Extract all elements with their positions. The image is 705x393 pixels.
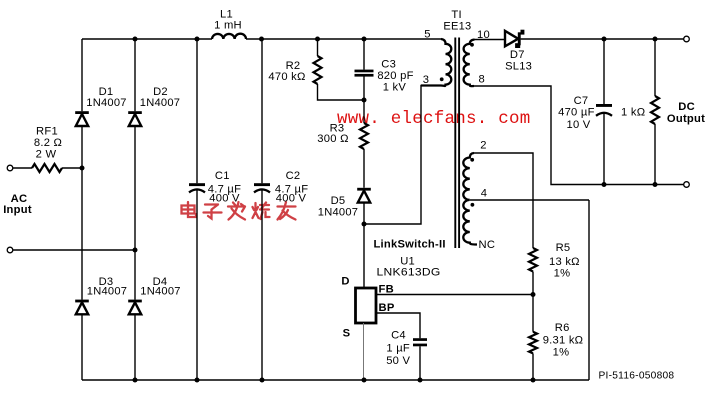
capacitor C3 column wire: [363, 39, 365, 123]
left column wire (D1/D3 branch): [81, 39, 83, 380]
svg-text:AC: AC: [11, 193, 28, 205]
svg-text:1N4007: 1N4007: [140, 286, 181, 298]
primary phasing dot: [440, 77, 444, 81]
diode D3: [75, 300, 89, 315]
svg-text:1N4007: 1N4007: [87, 286, 128, 298]
svg-text:1 µF: 1 µF: [386, 342, 410, 354]
svg-text:400 V: 400 V: [209, 193, 240, 205]
junction dots bottom rail: [133, 378, 138, 383]
transformer T1 primary winding (pins 5-3): [421, 39, 451, 86]
svg-text:1N4007: 1N4007: [318, 206, 359, 218]
junction dots on top rail: [133, 37, 138, 42]
resistor R2 branch wire: [318, 39, 365, 100]
svg-text:820 pF: 820 pF: [377, 70, 413, 82]
svg-text:1 kV: 1 kV: [383, 82, 407, 94]
wire pin 4 tap: [470, 199, 589, 201]
watermark CJK char 5: [278, 202, 296, 220]
watermark CJK char 1: [182, 202, 197, 217]
transformer T1 core: [455, 38, 459, 249]
capacitor C4: [413, 338, 427, 346]
svg-text:1%: 1%: [553, 346, 570, 358]
resistor R3: [360, 123, 368, 149]
svg-text:2 W: 2 W: [36, 149, 57, 161]
junction dots output bottom: [602, 182, 607, 187]
wire R3 to D5: [363, 149, 365, 288]
capacitor C1 column wire: [196, 39, 198, 380]
capacitor C3: [355, 70, 374, 77]
resistor R2: [314, 56, 322, 84]
resistor R8 1k column wire: [654, 39, 656, 185]
IC U1 LinkSwitch-II: [356, 288, 377, 323]
diode D1: [75, 111, 89, 126]
svg-text:U1: U1: [400, 255, 415, 267]
svg-text:D7: D7: [510, 49, 525, 61]
capacitor C7 column wire: [603, 39, 605, 185]
wire R5 to R6: [532, 272, 534, 332]
svg-text:R6: R6: [555, 322, 570, 334]
wire pin4 return: [588, 200, 590, 380]
capacitor C1: [189, 183, 205, 192]
wire FB to divider: [376, 294, 533, 296]
capacitor C2 column wire: [261, 39, 263, 380]
wire pin 2 to R5: [474, 153, 533, 248]
svg-text:SL13: SL13: [505, 61, 532, 73]
DC output terminal +: [684, 36, 690, 42]
watermark CJK char 4: [253, 203, 270, 220]
AC input terminal 1: [7, 165, 13, 171]
svg-text:C2: C2: [286, 170, 301, 182]
svg-text:S: S: [343, 327, 351, 339]
junction dots output top: [602, 37, 607, 42]
node AC2/D2-D4 junction: [133, 248, 138, 253]
svg-text:2: 2: [480, 140, 486, 152]
svg-text:3: 3: [423, 74, 429, 86]
capacitor C2: [254, 183, 270, 192]
watermark CJK char 3: [228, 202, 245, 220]
node R2/C3/R3: [362, 98, 367, 103]
svg-text:Output: Output: [667, 113, 705, 125]
resistor R6: [529, 332, 537, 354]
second column wire (D2/D4 branch): [134, 39, 136, 380]
top rail (rectified + bus): [82, 38, 441, 40]
svg-text:470 µF: 470 µF: [558, 107, 595, 119]
wire AC line 2: [13, 249, 135, 251]
svg-text:50 V: 50 V: [386, 355, 410, 367]
wire BP to C4: [376, 313, 420, 338]
resistor 1 kOhm preload: [651, 96, 659, 124]
wire clamp return to pin 3: [364, 86, 441, 225]
node FB junction: [531, 292, 536, 297]
svg-text:RF1: RF1: [36, 126, 58, 138]
svg-text:Input: Input: [3, 204, 32, 216]
diode D7: [505, 30, 524, 48]
node RF1/D1 junction: [80, 166, 85, 171]
svg-text:D: D: [341, 276, 349, 288]
svg-text:TI: TI: [451, 9, 461, 21]
wire pin 10 to D7: [475, 39, 506, 41]
diode D4: [128, 300, 142, 315]
diode D2: [128, 111, 142, 126]
DC output terminal -: [684, 182, 690, 188]
svg-text:PI-5116-050808: PI-5116-050808: [599, 371, 675, 382]
bias winding phasing dot upper: [470, 158, 474, 162]
AC input terminal 2: [7, 247, 13, 253]
capacitor C7: [596, 104, 612, 116]
node D5/clamp return: [362, 222, 367, 227]
svg-text:13 kΩ: 13 kΩ: [549, 256, 580, 268]
svg-text:4: 4: [481, 188, 487, 200]
wire C4 to ground: [419, 346, 421, 380]
transformer T1 bias winding (pins 2-4-NC): [463, 153, 477, 245]
svg-text:NC: NC: [479, 239, 496, 251]
watermark CJK char 2: [204, 205, 222, 219]
svg-text:1 kΩ: 1 kΩ: [621, 107, 645, 119]
resistor RF1: [32, 164, 62, 172]
svg-text:8: 8: [478, 74, 484, 86]
svg-text:1 mH: 1 mH: [214, 20, 242, 32]
svg-text:400 V: 400 V: [276, 193, 307, 205]
svg-text:10 V: 10 V: [566, 119, 590, 131]
svg-text:8.2 Ω: 8.2 Ω: [34, 137, 62, 149]
svg-text:1N4007: 1N4007: [86, 97, 127, 109]
svg-text:470 kΩ: 470 kΩ: [268, 71, 305, 83]
svg-text:R5: R5: [556, 242, 571, 254]
svg-text:C1: C1: [215, 170, 230, 182]
svg-text:300 Ω: 300 Ω: [317, 133, 348, 145]
wire D7 to DC+ terminal: [521, 38, 684, 40]
svg-text:1N4007: 1N4007: [140, 97, 181, 109]
bottom ground rail: [82, 379, 589, 381]
svg-text:DC: DC: [678, 101, 695, 113]
resistor R5: [529, 248, 537, 272]
inductor L1: [212, 34, 246, 39]
svg-text:C3: C3: [381, 59, 396, 71]
svg-text:C7: C7: [574, 95, 589, 107]
wire R6 to ground: [532, 353, 534, 380]
wire pin 8 to output return: [474, 86, 686, 185]
svg-text:EE13: EE13: [443, 21, 471, 33]
svg-text:9.31 kΩ: 9.31 kΩ: [543, 334, 584, 346]
bias winding phasing dot lower: [471, 203, 475, 207]
diode D5: [357, 188, 371, 203]
svg-text:1%: 1%: [554, 268, 571, 280]
svg-text:C4: C4: [391, 330, 406, 342]
svg-text:5: 5: [424, 29, 430, 41]
transformer T1 secondary winding (pins 10-8): [464, 40, 475, 87]
wire S pin to ground: [363, 323, 365, 380]
svg-text:D5: D5: [331, 195, 346, 207]
svg-text:LinkSwitch-II: LinkSwitch-II: [373, 238, 445, 250]
svg-text:LNK613DG: LNK613DG: [377, 267, 441, 279]
wire AC line 1: [13, 167, 82, 169]
secondary phasing dot: [470, 43, 474, 47]
